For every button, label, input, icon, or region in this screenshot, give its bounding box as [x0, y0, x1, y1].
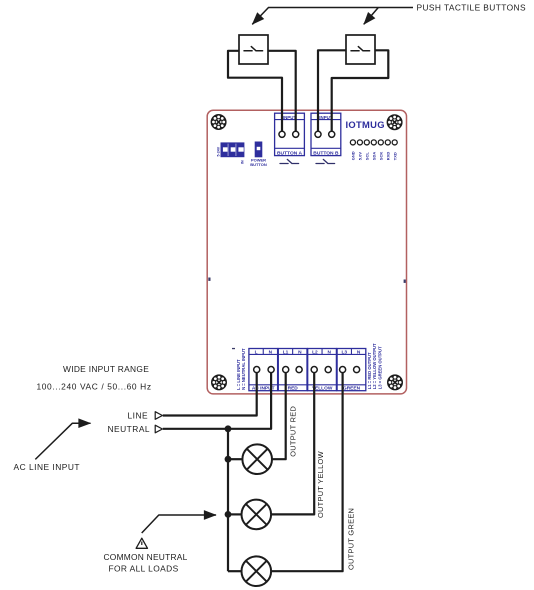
wire neutral to lamp 2: [228, 513, 241, 515]
mounting hole bottom-left: [211, 374, 227, 390]
label 100-240 VAC: [37, 381, 152, 391]
svg-text:SCK: SCK: [378, 152, 383, 161]
GREEN terminal holes: [340, 367, 360, 373]
svg-text:WIDE INPUT RANGE: WIDE INPUT RANGE: [63, 364, 149, 374]
wire NEUTRAL to terminal N: [163, 370, 271, 429]
INPUT A terminal holes: [279, 131, 299, 137]
svg-text:PUSH TACTILE BUTTONS: PUSH TACTILE BUTTONS: [417, 3, 526, 13]
pin header J3 pads: [350, 140, 397, 145]
label LINE: [128, 410, 149, 420]
wire L3 GREEN to lamp 3: [271, 370, 342, 572]
junction neutral bus / NEUTRAL: [225, 425, 232, 432]
svg-text:BUTTON: BUTTON: [250, 162, 267, 167]
label PUSH TACTILE BUTTONS: [417, 3, 526, 13]
terminal block OUTPUT YELLOW: [308, 349, 337, 392]
svg-text:IOTMUG: IOTMUG: [346, 119, 385, 130]
label COMMON NEUTRAL: [104, 552, 188, 562]
svg-text:FOR ALL LOADS: FOR ALL LOADS: [109, 563, 179, 573]
svg-text:INPUT: INPUT: [283, 115, 296, 120]
svg-text:RXD: RXD: [385, 152, 390, 161]
legend L1 = RED OUTPUT: [367, 352, 372, 389]
svg-text:LINE: LINE: [128, 410, 149, 420]
label OUTPUT GREEN: [347, 508, 356, 570]
AC INPUT terminal holes: [254, 367, 275, 373]
junction neutral lamp1: [225, 456, 232, 463]
svg-text:N = NEUTRAL INPUT: N = NEUTRAL INPUT: [241, 348, 246, 390]
legend L2 = YELLOW OUTPUT: [372, 343, 377, 389]
svg-text:OUTPUT RED: OUTPUT RED: [288, 406, 297, 457]
svg-text:BUTTON A: BUTTON A: [277, 150, 302, 156]
svg-text:L2: L2: [312, 349, 318, 355]
svg-text:IN: IN: [241, 160, 245, 164]
wire S1 pin1 to INPUT A terminal 1: [228, 51, 282, 135]
svg-text:L1: L1: [283, 349, 289, 355]
IOTMUG board outline: [207, 110, 406, 394]
label FOR ALL LOADS: [109, 563, 179, 573]
connector symbol NEUTRAL: [155, 425, 162, 433]
svg-text:OUTPUT GREEN: OUTPUT GREEN: [347, 508, 356, 570]
svg-text:N: N: [269, 349, 273, 355]
INPUT B terminal holes: [315, 131, 335, 137]
connector symbol LINE: [155, 412, 162, 420]
connector J1 label: [216, 146, 220, 156]
power button header J2: [255, 142, 262, 157]
svg-text:BUTTON B: BUTTON B: [313, 150, 339, 156]
svg-text:N: N: [298, 349, 302, 355]
input terminal block BUTTON A: [275, 113, 305, 156]
svg-text:TXD: TXD: [392, 152, 397, 160]
svg-text:COMMON NEUTRAL: COMMON NEUTRAL: [104, 552, 188, 562]
svg-text:SCL: SCL: [364, 152, 369, 161]
wire common neutral bus: [227, 429, 229, 571]
switch symbol under BUTTON A: [280, 159, 299, 163]
svg-text:L: L: [255, 349, 258, 355]
leader line to button S2: [364, 8, 379, 25]
lamp load GREEN: [241, 556, 271, 586]
connector J1 pin1 label: [241, 160, 245, 164]
lamp load YELLOW: [241, 500, 271, 530]
label OUTPUT YELLOW: [316, 451, 325, 518]
board tick mark: [232, 348, 235, 349]
switch symbol under BUTTON B: [316, 159, 335, 163]
mounting hole bottom-right: [387, 374, 403, 390]
power button label: [250, 158, 267, 167]
YELLOW terminal holes: [311, 367, 331, 373]
svg-text:GREEN: GREEN: [343, 386, 361, 392]
legend L = LINE INPUT: [236, 359, 241, 390]
svg-text:100...240 VAC / 50...60 Hz: 100...240 VAC / 50...60 Hz: [37, 381, 152, 391]
arrow AC LINE INPUT: [35, 423, 90, 459]
wire S1 pin2 to INPUT A terminal 2: [268, 51, 296, 135]
wire LINE to terminal L: [163, 370, 257, 416]
terminal block OUTPUT RED: [278, 349, 307, 392]
legend L3 = GREEN OUTPUT: [377, 346, 382, 389]
svg-text:AC LINE INPUT: AC LINE INPUT: [14, 462, 81, 472]
arrow COMMON NEUTRAL: [142, 515, 216, 533]
label AC LINE INPUT: [14, 462, 81, 472]
push tactile button S2: [346, 35, 375, 64]
input terminal block BUTTON B: [311, 113, 341, 156]
wire neutral to lamp 3: [228, 570, 241, 572]
board edge mark right: [404, 280, 406, 283]
svg-text:L3 = GREEN OUTPUT: L3 = GREEN OUTPUT: [377, 346, 382, 389]
pin header J3 labels: [351, 151, 398, 160]
svg-text:GND: GND: [351, 151, 356, 160]
RED terminal holes: [283, 367, 303, 373]
wire L1 RED to lamp 1: [272, 370, 285, 460]
svg-text:SDA: SDA: [371, 152, 376, 161]
svg-text:N: N: [357, 349, 361, 355]
wire L2 YELLOW to lamp 2: [271, 370, 314, 515]
warning triangle: [136, 538, 147, 548]
svg-text:L3: L3: [341, 349, 347, 355]
terminal block OUTPUT GREEN: [337, 349, 366, 392]
mounting hole top-right: [387, 114, 403, 130]
svg-text:N: N: [327, 349, 331, 355]
wire neutral to lamp 1: [228, 458, 242, 460]
svg-text:NEUTRAL: NEUTRAL: [108, 424, 151, 434]
leader line to button S1: [252, 8, 413, 25]
IOTMUG logo text: [346, 119, 385, 130]
junction neutral lamp2: [225, 511, 232, 518]
terminal block AC INPUT: [249, 349, 278, 392]
legend N = NEUTRAL INPUT: [241, 348, 246, 390]
board edge mark left: [208, 278, 210, 281]
mounting hole top-left: [211, 114, 227, 130]
svg-text:5.0V: 5.0V: [358, 152, 363, 161]
push tactile button S1: [239, 35, 268, 64]
label WIDE INPUT RANGE: [63, 364, 149, 374]
svg-text:5-24V: 5-24V: [216, 146, 220, 156]
svg-text:OUTPUT YELLOW: OUTPUT YELLOW: [316, 451, 325, 518]
label NEUTRAL: [108, 424, 151, 434]
lamp load RED: [242, 444, 272, 474]
wire S2 pin1 to INPUT B terminal 1: [318, 50, 346, 134]
svg-text:RED: RED: [288, 386, 299, 392]
label OUTPUT RED: [288, 406, 297, 457]
connector J1 3-pin: [221, 142, 245, 157]
wire S2 pin2 to INPUT B terminal 2: [332, 50, 389, 134]
